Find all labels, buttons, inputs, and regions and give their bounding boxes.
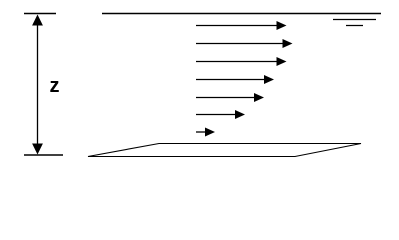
dimension arrow z — [24, 14, 63, 156]
velocity arrow 7 — [196, 128, 215, 137]
velocity arrow 3 — [196, 57, 287, 66]
velocity arrow 6 — [196, 110, 245, 119]
free-surface symbol — [333, 20, 376, 26]
velocity arrow 4 — [196, 75, 274, 84]
svg-text:z: z — [50, 75, 60, 97]
label z — [50, 75, 60, 97]
water surface line — [102, 13, 381, 15]
channel bed plate — [88, 144, 361, 157]
velocity arrow 2 — [196, 39, 293, 48]
velocity arrow 5 — [196, 93, 264, 102]
velocity arrow 1 — [196, 21, 287, 30]
